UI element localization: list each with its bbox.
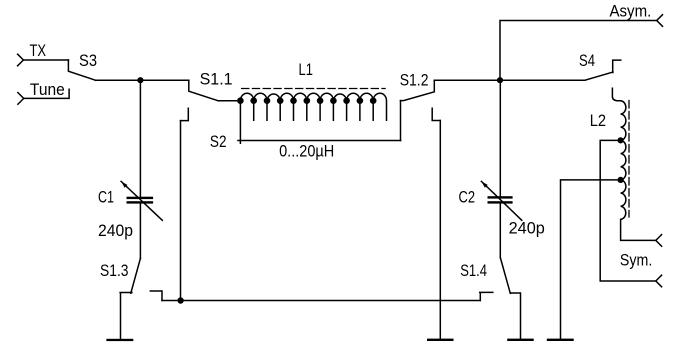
wire L1 start tap to S2 wiper [239, 101, 241, 144]
S1.3 right contact [150, 291, 162, 301]
L1 core dashed line [242, 88, 386, 90]
connector Tx arrow [18, 54, 24, 66]
svg-text:Tune: Tune [30, 80, 65, 99]
wire Tx input [23, 59, 68, 61]
wire S3 to node A [95, 79, 188, 81]
ground below S1.3 [106, 339, 133, 341]
svg-text:0...20µH: 0...20µH [279, 142, 334, 161]
junction bottom bus [177, 297, 183, 303]
wire L2 tap1 to Sym lower [600, 140, 656, 281]
L2 tap2 dot [618, 177, 624, 183]
switch S4 [585, 72, 613, 80]
svg-text:Sym.: Sym. [620, 251, 652, 270]
switch S1.4 [500, 258, 510, 294]
L2 tap1 dot [618, 137, 624, 143]
wire S1.1 to L1 [218, 100, 240, 102]
switch S3 [68, 60, 95, 80]
switch S1.1 [189, 80, 218, 101]
wire L2 tap2 to ground [561, 180, 621, 339]
switch S1.3 [131, 258, 141, 293]
svg-text:Asym.: Asym. [610, 2, 652, 21]
capacitor C1 wire bottom [139, 204, 141, 259]
wire node B to Asym [500, 21, 657, 81]
svg-text:L2: L2 [590, 111, 606, 130]
ground below S1.2 contact [427, 339, 454, 341]
wire S1.2 contact to ground [439, 121, 441, 339]
svg-text:C2: C2 [459, 188, 476, 207]
S1.4 left contact [480, 292, 493, 300]
svg-text:S1.2: S1.2 [400, 71, 429, 90]
svg-text:240p: 240p [98, 221, 133, 240]
connector Sym lower arrow [656, 275, 662, 287]
capacitor C2 wire bottom [499, 204, 501, 258]
inductor L1 [240, 93, 386, 120]
capacitor C1 trimmer arrow [121, 181, 162, 220]
connector Tune arrow [18, 93, 24, 105]
capacitor C1 arrowhead [121, 181, 127, 187]
svg-text:TX: TX [30, 41, 47, 60]
S4 lower contact to L2 [612, 88, 620, 101]
connector Asym arrow [657, 15, 663, 27]
svg-text:C1: C1 [98, 188, 114, 207]
svg-text:S2: S2 [210, 132, 227, 151]
L2 core dashed line [628, 101, 630, 218]
S1.2 open contact [432, 108, 440, 120]
switch S1.2 [401, 80, 435, 100]
S1.1 open contact [181, 108, 189, 120]
capacitor C2 trimmer arrow [481, 181, 521, 220]
switch S2 wiper bus [238, 140, 401, 142]
ground below L2 tap2 [547, 339, 574, 341]
capacitor C2 plates [488, 196, 513, 198]
wire S2 wiper to S1.2 [400, 101, 402, 141]
capacitor C1 plates [127, 197, 154, 199]
junction node B [497, 77, 503, 83]
svg-text:S1.1: S1.1 [200, 69, 233, 88]
L1 tap dots [250, 97, 257, 104]
connector Sym upper arrow [656, 235, 662, 247]
svg-text:240p: 240p [509, 219, 545, 238]
svg-text:S1.4: S1.4 [460, 261, 487, 280]
svg-text:L1: L1 [299, 60, 313, 79]
capacitor C1 wire top [139, 80, 141, 197]
capacitor C2 arrowhead [481, 181, 487, 187]
svg-text:S4: S4 [579, 51, 595, 70]
wire S1.1 contact to bottom bus [180, 121, 182, 301]
ground below S1.4 [507, 339, 534, 341]
S4 upper contact [613, 60, 621, 72]
wire bottom bus [162, 300, 480, 302]
wire S1.2 to node B [434, 79, 585, 81]
svg-text:S1.3: S1.3 [100, 261, 129, 280]
junction node A [137, 77, 143, 83]
junction L1 start tap [237, 97, 244, 104]
transformer L2 winding [621, 101, 656, 241]
wire Tune input [24, 89, 69, 98]
svg-text:S3: S3 [79, 51, 97, 70]
L1 tap stubs [254, 101, 374, 121]
capacitor C2 wire top [499, 80, 501, 196]
S1.4 right contact [510, 293, 520, 339]
S1.3 left contact [120, 293, 132, 339]
